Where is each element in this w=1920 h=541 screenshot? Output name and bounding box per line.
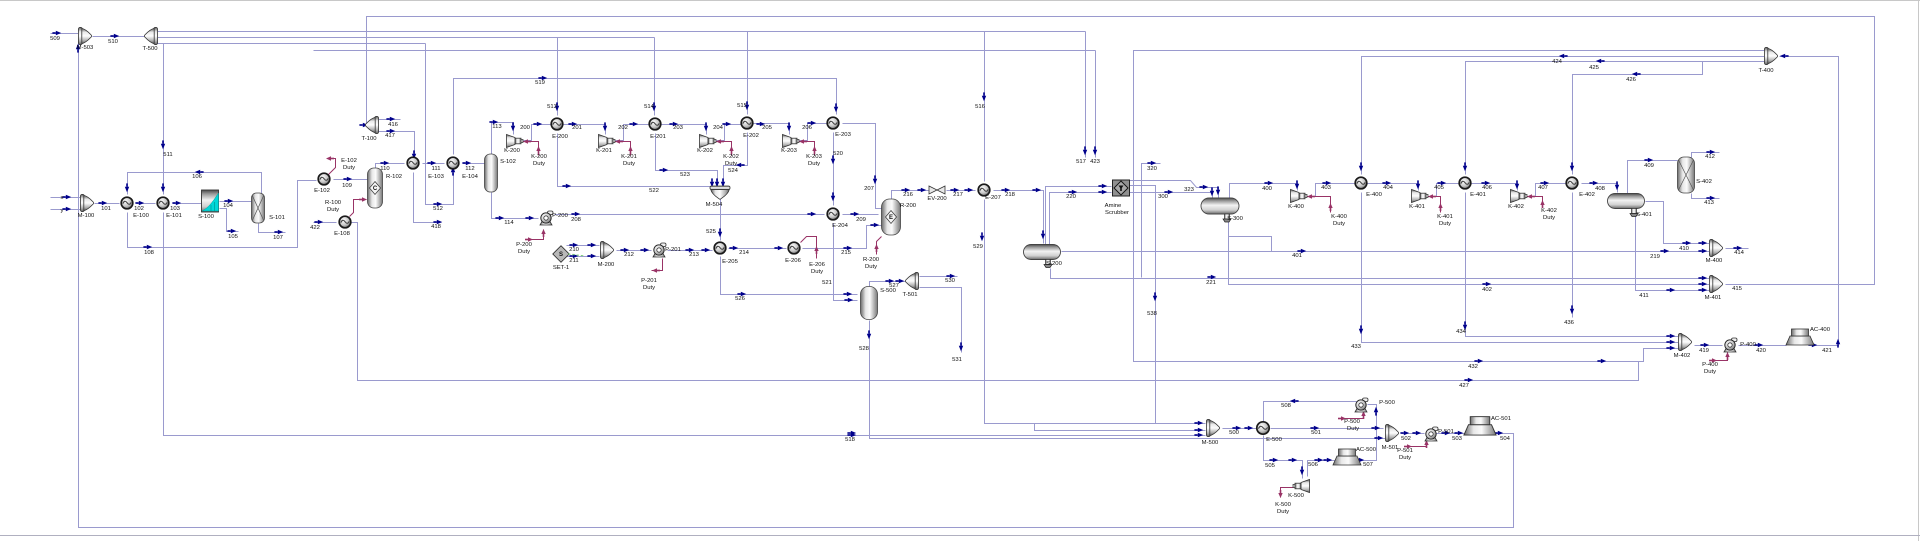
energy stream duty 16 (1278, 488, 1296, 499)
wire stream 509 (51, 33, 79, 35)
svg-text:400: 400 (1262, 186, 1273, 192)
svg-text:M-200: M-200 (598, 262, 615, 268)
wire wire 432 from T-400 (1134, 51, 1767, 362)
svg-text:K-402: K-402 (1541, 208, 1557, 214)
svg-text:106: 106 (192, 174, 203, 180)
svg-text:K-400: K-400 (1288, 204, 1304, 210)
wire stream 206 (800, 124, 828, 141)
wire stream 526 (721, 257, 858, 295)
svg-text:Duty: Duty (343, 165, 355, 171)
compressor K-202 (700, 135, 717, 148)
svg-text:212: 212 (624, 252, 634, 258)
svg-text:R-100: R-100 (325, 200, 342, 206)
svg-text:E-206: E-206 (785, 258, 801, 264)
wire stream 403 (1308, 184, 1356, 197)
wire stream 404 (1368, 184, 1419, 191)
wire stream 433 (1362, 193, 1679, 343)
svg-text:408: 408 (1595, 186, 1606, 192)
wire stream 508 (1264, 402, 1357, 422)
svg-text:103: 103 (170, 206, 181, 212)
svg-text:AC-501: AC-501 (1491, 416, 1511, 422)
svg-text:433: 433 (1351, 344, 1362, 350)
svg-text:509: 509 (50, 36, 60, 42)
wire stream 106 (128, 173, 262, 195)
svg-text:Duty: Duty (1347, 426, 1359, 432)
mixer M-500 (1206, 419, 1219, 436)
energy stream duty 13 (1709, 352, 1730, 363)
svg-text:Duty: Duty (725, 161, 737, 167)
svg-text:527: 527 (889, 283, 899, 289)
svg-text:M-400: M-400 (1706, 258, 1723, 264)
valve EV-200 (929, 186, 945, 194)
compressor K-203 (783, 135, 800, 148)
svg-text:P-201: P-201 (665, 247, 681, 253)
wire stream 527 (870, 282, 907, 288)
svg-text:521: 521 (822, 280, 832, 286)
svg-text:421: 421 (1822, 348, 1832, 354)
svg-text:201: 201 (572, 125, 582, 131)
wire stream 427 (352, 223, 1639, 381)
wire stream 517 (1085, 32, 1087, 158)
svg-text:432: 432 (1468, 364, 1478, 370)
energy stream duty 8 (801, 237, 819, 259)
heat exchanger E-102 (318, 173, 330, 185)
svg-text:531: 531 (952, 357, 962, 363)
svg-text:111: 111 (432, 166, 441, 172)
wire stream 108 (128, 181, 317, 248)
wire wire 422/423 header (314, 50, 1096, 52)
svg-text:E-100: E-100 (133, 213, 149, 219)
wire vessel elbow 401 (1229, 237, 1272, 252)
wire stream 212 (617, 250, 652, 252)
svg-text:E-101: E-101 (166, 213, 182, 219)
pump P-200 (540, 211, 553, 225)
svg-text:101: 101 (101, 206, 111, 212)
svg-text:K-400: K-400 (1331, 214, 1347, 220)
svg-text:T-500: T-500 (142, 46, 158, 52)
svg-text:216: 216 (903, 192, 914, 198)
svg-text:508: 508 (1281, 403, 1292, 409)
wire stream 218 (994, 191, 1044, 244)
wire stream 424 (1362, 57, 1767, 175)
compressor K-401 (1412, 190, 1429, 203)
svg-text:E-102: E-102 (341, 158, 357, 164)
wire stream 402 (1229, 218, 1711, 285)
air cooler AC-501 (1464, 417, 1496, 435)
tee T-500 (144, 27, 157, 44)
wire stream 114 (492, 193, 539, 219)
energy stream duty 1 (350, 197, 368, 216)
wire stream 512 (426, 44, 454, 205)
svg-text:505: 505 (1265, 463, 1276, 469)
tee T-501 (905, 272, 918, 289)
svg-text:S: S (559, 252, 563, 258)
svg-text:Duty: Duty (1277, 509, 1289, 515)
svg-text:425: 425 (1589, 65, 1600, 71)
svg-text:210: 210 (569, 247, 580, 253)
energy stream duty 3 (615, 139, 633, 155)
svg-text:407: 407 (1538, 185, 1548, 191)
svg-text:414: 414 (1734, 250, 1745, 256)
svg-text:M-504: M-504 (706, 202, 723, 208)
heat exchanger E-205 (714, 242, 726, 254)
svg-text:Duty: Duty (533, 161, 545, 167)
wire stream 411 (1636, 217, 1711, 291)
svg-text:M-501: M-501 (1382, 445, 1399, 451)
svg-text:525: 525 (706, 229, 717, 235)
wire stream 530 (920, 276, 958, 278)
wire stream 519 (454, 79, 837, 155)
column S-101 (252, 193, 265, 223)
pump P-400 (1724, 338, 1737, 352)
wire stream 320 (1142, 164, 1161, 278)
compressor K-400 (1291, 190, 1308, 203)
svg-text:424: 424 (1552, 59, 1563, 65)
pump P-501 (1425, 427, 1438, 441)
heat exchanger E-400 (1355, 177, 1367, 189)
wire stream 101 (95, 203, 120, 205)
svg-text:219: 219 (1650, 254, 1660, 260)
svg-text:K-401: K-401 (1437, 214, 1453, 220)
svg-text:109: 109 (342, 183, 352, 189)
svg-text:434: 434 (1456, 329, 1467, 335)
svg-text:524: 524 (728, 168, 739, 174)
svg-text:405: 405 (1434, 185, 1445, 191)
svg-text:P-400: P-400 (1702, 362, 1718, 368)
wire stream 102 (137, 203, 156, 205)
heat exchanger E-401 (1459, 177, 1471, 189)
svg-text:P-500: P-500 (1379, 400, 1395, 406)
set operation SET-1 (553, 246, 569, 262)
wire wire 415 M-401 to T-100 (367, 17, 1875, 285)
svg-text:E-103: E-103 (428, 174, 444, 180)
pump P-201 (653, 243, 666, 257)
compressor K-402 (1511, 190, 1528, 203)
svg-text:K-202: K-202 (723, 154, 739, 160)
tee T-100 (365, 116, 378, 133)
svg-text:S-200: S-200 (1046, 261, 1062, 267)
wire stream 215 (803, 226, 882, 249)
svg-text:K-402: K-402 (1508, 204, 1524, 210)
wire scrubber feed upper (1046, 187, 1112, 245)
svg-text:Duty: Duty (811, 269, 823, 275)
wire stream 208 (555, 214, 825, 216)
wire stream 513 (557, 38, 559, 116)
svg-text:108: 108 (144, 250, 155, 256)
svg-text:513: 513 (547, 104, 558, 110)
wire stream 111 (423, 163, 445, 165)
wire stream 220 (1050, 193, 1112, 245)
mixer M-200 (600, 241, 613, 258)
svg-text:E-203: E-203 (835, 132, 851, 138)
svg-text:E-206: E-206 (809, 262, 825, 268)
svg-text:E: E (889, 215, 893, 221)
wire stream 202 (616, 125, 650, 141)
wire stream 210 (567, 245, 600, 247)
svg-text:P-501: P-501 (1397, 448, 1413, 454)
svg-text:323: 323 (1184, 187, 1195, 193)
expander K-500 (1293, 480, 1310, 493)
wire stream 221 (1051, 269, 1711, 279)
wire stream 204 (717, 125, 742, 141)
svg-text:522: 522 (649, 188, 659, 194)
svg-text:220: 220 (1066, 194, 1077, 200)
energy stream duty 9 (874, 237, 881, 255)
wire stream 405 (1429, 184, 1460, 197)
svg-text:K-500: K-500 (1288, 493, 1304, 499)
mixer M-503 (78, 27, 91, 44)
wire stream 412 (1692, 153, 1720, 158)
svg-text:Duty: Duty (1543, 215, 1555, 221)
svg-text:520: 520 (833, 151, 844, 157)
wire stream to M-500 mid (1035, 424, 1206, 431)
wire stream 426 (1573, 62, 1703, 175)
heat exchanger E-500 (1257, 422, 1269, 434)
svg-text:K-200: K-200 (531, 154, 547, 160)
svg-text:K-203: K-203 (781, 148, 797, 154)
svg-text:204: 204 (713, 125, 724, 131)
svg-text:500: 500 (1229, 430, 1240, 436)
svg-text:K-203: K-203 (806, 154, 822, 160)
energy stream duty 4 (716, 139, 734, 155)
energy stream duty 12 (1527, 194, 1545, 208)
air cooler AC-500 (1333, 449, 1361, 465)
heat exchanger E-104 (447, 157, 459, 169)
svg-text:418: 418 (431, 224, 442, 230)
svg-text:P-201: P-201 (641, 278, 657, 284)
wire stream 214 (729, 248, 787, 250)
svg-text:208: 208 (571, 217, 582, 223)
duty labels (325, 154, 1719, 515)
wire recycle 504 loop (79, 41, 1514, 528)
tee T-400 (1764, 47, 1777, 64)
wire stream 522 (558, 134, 712, 191)
svg-text:SET-1: SET-1 (553, 265, 569, 271)
wire stream 521 (834, 224, 858, 301)
wire stream 502 (1402, 433, 1425, 435)
svg-text:526: 526 (735, 296, 746, 302)
wire stream 524 (724, 133, 748, 191)
wire stream 300 (1130, 193, 1213, 198)
svg-text:110: 110 (380, 166, 390, 172)
svg-text:215: 215 (841, 250, 852, 256)
wire stream 211 (567, 256, 600, 258)
svg-text:415: 415 (1732, 286, 1743, 292)
svg-text:E-401: E-401 (1470, 192, 1486, 198)
svg-text:y: y (61, 208, 64, 214)
wire stream 413 (1692, 194, 1720, 199)
svg-text:Duty: Duty (518, 249, 530, 255)
svg-text:P-501: P-501 (1438, 429, 1454, 435)
svg-text:EV-200: EV-200 (927, 196, 947, 202)
svg-text:E-201: E-201 (650, 134, 666, 140)
svg-text:427: 427 (1459, 383, 1469, 389)
svg-text:426: 426 (1626, 77, 1637, 83)
wire stream 410 (1646, 202, 1711, 244)
svg-text:538: 538 (1147, 311, 1158, 317)
heat exchanger E-100 (121, 197, 133, 209)
svg-text:E-402: E-402 (1579, 192, 1595, 198)
energy stream duty 15 (1404, 440, 1429, 449)
wire stream 207 (843, 124, 882, 209)
svg-text:Scrubber: Scrubber (1105, 210, 1129, 216)
mixer M-402 (1678, 333, 1691, 350)
wire stream 107 (259, 224, 286, 233)
svg-text:300: 300 (1158, 194, 1169, 200)
air cooler AC-400 (1786, 329, 1814, 345)
wire stream 500 (1223, 428, 1257, 430)
wire stream x feed (51, 197, 81, 199)
wire stream 436 (1572, 193, 1574, 318)
svg-text:320: 320 (1147, 166, 1158, 172)
svg-text:401: 401 (1292, 253, 1302, 259)
wire wire 513/514 header (158, 37, 655, 39)
wire stream 422 (314, 222, 337, 224)
wire stream 407 (1528, 184, 1567, 197)
svg-text:510: 510 (108, 39, 119, 45)
svg-text:410: 410 (1679, 246, 1690, 252)
wire stream 505 (1264, 436, 1303, 479)
wire stream 418 (414, 173, 442, 223)
svg-text:203: 203 (673, 125, 684, 131)
svg-text:Duty: Duty (1333, 221, 1345, 227)
column S-402 (1678, 157, 1695, 193)
wire stream 421 (1780, 57, 1839, 346)
svg-text:506: 506 (1308, 462, 1319, 468)
svg-text:436: 436 (1564, 320, 1575, 326)
svg-text:E-200: E-200 (552, 134, 568, 140)
compressor K-200 (507, 135, 524, 148)
wire stream 406 (1472, 184, 1518, 191)
separator S-200 horizontal vessel (1024, 245, 1061, 268)
svg-text:504: 504 (1500, 436, 1511, 442)
svg-text:515: 515 (737, 103, 748, 109)
wire stream 419 (1695, 345, 1723, 347)
svg-text:113: 113 (492, 124, 502, 130)
svg-text:528: 528 (859, 346, 870, 352)
wire stream 113 (492, 123, 514, 155)
energy stream duty 10 (1307, 194, 1333, 212)
svg-text:211: 211 (569, 258, 578, 264)
svg-text:206: 206 (802, 125, 813, 131)
mixer M-400 (1709, 239, 1722, 256)
svg-text:E-102: E-102 (314, 188, 330, 194)
mixer M-501 (1385, 424, 1398, 441)
heat exchanger E-207 (978, 184, 990, 196)
svg-text:503: 503 (1452, 436, 1463, 442)
wire stream 104 (220, 201, 253, 203)
svg-text:420: 420 (1756, 348, 1767, 354)
wire stream 523 (656, 134, 718, 191)
separator S-300 horizontal vessel (1201, 198, 1239, 222)
heat exchanger E-202 (741, 117, 753, 129)
svg-text:209: 209 (856, 217, 866, 223)
svg-text:S-101: S-101 (269, 215, 285, 221)
energy stream duty 0 (326, 156, 336, 174)
svg-text:516: 516 (975, 104, 986, 110)
svg-text:422: 422 (310, 225, 320, 231)
svg-text:406: 406 (1482, 185, 1493, 191)
wire stream 203 (662, 125, 707, 135)
svg-text:M-500: M-500 (1202, 440, 1219, 446)
wire stream 529 (985, 200, 1206, 424)
wire stream 400 (1230, 184, 1298, 199)
svg-text:Duty: Duty (1399, 455, 1411, 461)
svg-text:404: 404 (1383, 185, 1394, 191)
heat exchanger E-201 (649, 118, 661, 130)
heat exchanger E-200 (551, 118, 563, 130)
svg-text:M-100: M-100 (78, 213, 95, 219)
svg-text:C: C (373, 186, 378, 192)
svg-text:518: 518 (845, 437, 856, 443)
wire stream 112 (463, 163, 486, 165)
energy stream duty 7 (652, 259, 663, 273)
wire stream 416 (379, 119, 401, 121)
svg-text:Amine: Amine (1105, 203, 1122, 209)
wire stream 213 (668, 250, 713, 252)
svg-text:207: 207 (864, 186, 874, 192)
energy stream duty 14 (1338, 411, 1366, 421)
svg-text:T-100: T-100 (361, 136, 377, 142)
wire stream 525 (720, 199, 722, 241)
wire stream 510 (93, 36, 146, 38)
svg-text:512: 512 (433, 206, 443, 212)
stream flow arrows (52, 31, 1840, 475)
svg-text:P-400: P-400 (1740, 342, 1756, 348)
svg-text:411: 411 (1639, 293, 1648, 299)
svg-text:402: 402 (1482, 287, 1492, 293)
svg-text:K-201: K-201 (621, 154, 637, 160)
svg-text:105: 105 (228, 234, 239, 240)
svg-text:205: 205 (762, 125, 773, 131)
svg-text:529: 529 (973, 244, 983, 250)
wire stream 507 (1361, 405, 1377, 461)
svg-text:107: 107 (273, 235, 283, 241)
heat exchanger E-206 (788, 242, 800, 254)
wire stream 531 (920, 288, 962, 353)
svg-text:E-202: E-202 (743, 133, 759, 139)
wire stream 515 (747, 32, 749, 115)
heat exchanger E-402 (1566, 177, 1578, 189)
heat exchanger E-103 (407, 157, 419, 169)
svg-text:AC-500: AC-500 (1356, 447, 1377, 453)
wire stream 408 (1582, 184, 1618, 193)
wire stream 105 (220, 209, 239, 232)
wire stream 514 (654, 38, 656, 116)
wire stream 506 (1308, 461, 1336, 477)
svg-text:AC-400: AC-400 (1810, 327, 1831, 333)
svg-text:412: 412 (1705, 154, 1715, 160)
wire stream 538 (1130, 186, 1156, 424)
wire stream 503 (1437, 433, 1467, 435)
svg-text:217: 217 (953, 192, 963, 198)
wire stream 520 (833, 133, 835, 206)
wire stream 425 (1466, 62, 1767, 175)
svg-text:530: 530 (945, 278, 956, 284)
svg-text:104: 104 (223, 203, 234, 209)
svg-text:423: 423 (1090, 159, 1101, 165)
svg-text:P-200: P-200 (552, 213, 568, 219)
svg-text:200: 200 (520, 125, 531, 131)
svg-text:E-204: E-204 (832, 223, 848, 229)
svg-text:T-400: T-400 (1758, 68, 1774, 74)
wire stream 110 (376, 164, 405, 169)
svg-text:403: 403 (1321, 185, 1332, 191)
svg-text:114: 114 (504, 220, 514, 226)
svg-text:E-108: E-108 (334, 231, 350, 237)
svg-text:E-205: E-205 (722, 259, 738, 265)
wire stream 200 (524, 125, 552, 141)
